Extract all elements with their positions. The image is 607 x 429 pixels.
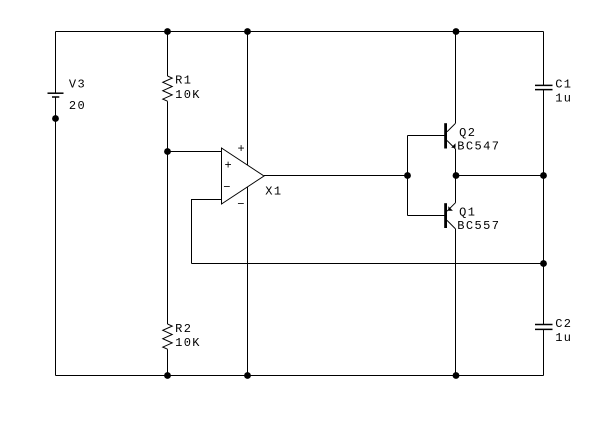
transistor Q2 xyxy=(444,123,455,149)
wire R1 top xyxy=(167,32,169,77)
junction top rail R1 xyxy=(164,28,171,35)
svg-text:−: − xyxy=(237,197,246,211)
junction emitter node xyxy=(453,172,460,179)
wire Q1 collector xyxy=(455,229,457,376)
voltage source V3 xyxy=(48,93,64,97)
svg-text:−: − xyxy=(223,181,232,195)
wire Q1 base xyxy=(408,215,445,217)
wire emitter node to right rail xyxy=(456,175,544,177)
wire Q2 base xyxy=(408,135,445,137)
junction bottom rail power line xyxy=(244,372,251,379)
wire left rail lower xyxy=(55,97,57,376)
wire Q1 emitter xyxy=(455,176,457,203)
svg-text:X1: X1 xyxy=(265,185,282,199)
svg-text:C2: C2 xyxy=(555,317,572,331)
svg-text:10K: 10K xyxy=(175,336,201,350)
junction on left rail xyxy=(52,115,59,122)
wire left rail upper xyxy=(55,32,57,94)
wire Q2 emitter xyxy=(455,149,457,176)
wire inverting input xyxy=(192,200,222,264)
wire right rail upper xyxy=(543,32,545,86)
svg-text:+: + xyxy=(238,142,247,156)
svg-text:C1: C1 xyxy=(555,78,572,92)
junction top rail power line xyxy=(244,28,251,35)
wire non-inverting input xyxy=(168,151,222,153)
op-amp X1 xyxy=(222,148,265,204)
svg-text:20: 20 xyxy=(69,99,86,113)
wire power line xyxy=(247,32,249,376)
capacitor C1 xyxy=(535,85,553,89)
junction divider node xyxy=(164,148,171,155)
resistor R2 xyxy=(163,324,172,349)
svg-text:BC547: BC547 xyxy=(457,140,500,154)
svg-text:+: + xyxy=(225,158,234,172)
wire top rail xyxy=(56,31,544,33)
capacitor C2 xyxy=(535,325,553,330)
wire Q2 collector xyxy=(455,32,457,124)
junction bottom rail R2 xyxy=(164,372,171,379)
transistor Q1 xyxy=(444,203,455,229)
junction right rail node xyxy=(540,172,547,179)
wire feedback xyxy=(192,263,544,265)
svg-text:BC557: BC557 xyxy=(457,219,500,233)
wire right rail middle xyxy=(543,90,545,325)
wire R1 to R2 xyxy=(167,101,169,324)
wire R2 bottom xyxy=(167,349,169,375)
junction right rail feedback xyxy=(540,260,547,267)
svg-text:10K: 10K xyxy=(175,88,201,102)
resistor R1 xyxy=(163,76,172,101)
svg-text:R2: R2 xyxy=(175,322,192,336)
svg-text:Q2: Q2 xyxy=(459,126,476,140)
svg-text:1u: 1u xyxy=(555,91,572,105)
svg-text:V3: V3 xyxy=(69,78,86,92)
junction top rail Q2 collector xyxy=(453,28,460,35)
wire bottom rail xyxy=(56,375,544,377)
junction bottom rail Q1 collector xyxy=(453,372,460,379)
svg-text:1u: 1u xyxy=(555,331,572,345)
svg-text:R1: R1 xyxy=(175,74,192,88)
wire op-amp output xyxy=(264,175,408,177)
wire right rail lower xyxy=(543,329,545,375)
wire base vertical xyxy=(407,136,409,216)
junction output base node xyxy=(404,172,411,179)
svg-text:Q1: Q1 xyxy=(459,205,476,219)
